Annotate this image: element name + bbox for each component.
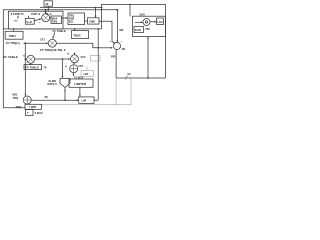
svg-text:FF TRQ(s): FF TRQ(s)	[6, 41, 20, 45]
node Y2 at 101.5	[101, 7, 103, 9]
box TBD2	[72, 31, 89, 39]
wire faint bottom return	[42, 78, 132, 104]
svg-text:TRQ: TRQ	[52, 20, 57, 23]
svg-text:TBD2: TBD2	[74, 33, 82, 37]
wire bus down to summer 40 left input and LIM feedback	[97, 29, 99, 100]
svg-text:⁄50: ⁄50	[44, 95, 49, 99]
wire top bus Y2	[40, 7, 102, 9]
wire faint PID down	[115, 78, 117, 105]
svg-text:S+D: S+D	[26, 20, 32, 24]
summer 40	[113, 42, 120, 49]
plant enclosure 100	[133, 16, 166, 36]
node plant drop	[129, 4, 131, 6]
box LAG	[157, 18, 164, 25]
svg-text:CF1: CF1	[40, 37, 45, 41]
wire into motor from left	[135, 21, 142, 23]
svg-text:ECM: ECM	[135, 28, 141, 32]
wire C3 output down	[72, 73, 74, 76]
svg-text:TRQ: TRQ	[16, 105, 22, 109]
box CMD	[88, 18, 100, 24]
wire feedback L-path to plant	[102, 5, 166, 79]
wire box42 drop	[47, 6, 49, 10]
node Y1 right end	[117, 9, 119, 11]
svg-text:FF TABLE: FF TABLE	[4, 55, 18, 59]
wire B2 to CMD	[85, 20, 88, 22]
svg-text:⁄160: ⁄160	[139, 12, 146, 16]
svg-text:TRQ: TRQ	[13, 96, 18, 100]
summer C3	[70, 65, 78, 73]
node Y2 at 95.5	[95, 7, 97, 9]
wire branch down to pentagon	[62, 59, 64, 78]
slash break mark	[125, 76, 128, 80]
wire Ba stub	[86, 67, 88, 71]
svg-text:42: 42	[45, 2, 49, 6]
wire CMD output	[99, 20, 108, 22]
summer 50	[23, 96, 31, 104]
svg-text:CXP Δ: CXP Δ	[31, 12, 41, 16]
svg-text:FF TORQUE TBL 2: FF TORQUE TBL 2	[40, 48, 66, 52]
box FF TABLE 76	[24, 65, 42, 70]
svg-text:PID: PID	[111, 54, 115, 58]
wire M1 to B2	[62, 17, 68, 19]
wire vertical v2 into summer 40	[116, 10, 118, 42]
box M1 max trq	[51, 16, 62, 23]
motor circle 160	[143, 19, 150, 26]
svg-text:FF TABLE: FF TABLE	[25, 66, 39, 70]
wire into C1 from left	[24, 42, 48, 44]
wire top bus Y1	[8, 9, 117, 11]
wire into TBD2	[74, 29, 76, 31]
pentagon slew limiter	[60, 79, 70, 88]
wire drop into summer S1	[45, 10, 47, 13]
box ECM	[134, 27, 144, 33]
summer S1	[42, 14, 50, 22]
wire summer 50 to LIM box	[31, 99, 78, 101]
node feedback junction	[147, 77, 149, 79]
multiplier C1	[48, 39, 56, 47]
svg-text:RATE X: RATE X	[48, 82, 58, 86]
wire into CMD from Y2	[95, 8, 97, 18]
svg-text:LIM: LIM	[84, 73, 88, 76]
wire tick below header	[17, 16, 19, 19]
wire vertical Y2 to bus	[101, 8, 103, 29]
wire summer 50 down	[26, 103, 28, 105]
svg-text:CF2: CF2	[81, 55, 86, 59]
limiter block	[25, 104, 42, 109]
wire S-D to S1	[34, 19, 41, 21]
node C1 input branch	[24, 42, 26, 44]
svg-text:LIMITER: LIMITER	[74, 82, 87, 86]
frame left and bottom border	[3, 10, 25, 108]
wire long drop to summer 50	[24, 43, 26, 95]
svg-text:CMD: CMD	[89, 20, 95, 24]
small box T MAX	[26, 110, 34, 116]
node box42 drop	[48, 9, 50, 11]
svg-text:⁄162: ⁄162	[144, 27, 150, 31]
svg-text:TQ MAX: TQ MAX	[74, 76, 84, 79]
svg-text:SEL: SEL	[69, 21, 74, 24]
svg-text:LIM: LIM	[82, 99, 86, 103]
wire C1 output to summer 40 left	[56, 43, 98, 48]
wire motor to LAG	[150, 21, 156, 23]
wire pentagon bottom down	[64, 88, 66, 101]
svg-text:LIMIT: LIMIT	[29, 105, 36, 109]
wire C2 to C3	[73, 63, 75, 64]
svg-text:+(: +(	[65, 65, 67, 68]
box faint 164	[91, 56, 101, 62]
wire tick into S-D top	[28, 16, 30, 18]
box S-D	[25, 18, 34, 24]
wire up into plant	[147, 37, 149, 79]
wire FT to D1	[30, 63, 32, 64]
svg-text:FF TABLE: FF TABLE	[53, 29, 66, 33]
wire into C1 from top	[53, 32, 55, 38]
svg-text:TL A: TL A	[46, 12, 52, 16]
box Ba faint	[81, 71, 94, 77]
svg-text:T MAX: T MAX	[35, 111, 43, 115]
node pentagon feedback joins wire	[64, 99, 66, 101]
multiplier D1	[27, 55, 35, 63]
wire Bb down to LIM	[79, 87, 81, 96]
box 42 top reference input	[44, 1, 53, 6]
svg-text:θ FWD TL: θ FWD TL	[11, 12, 25, 16]
box LIM 54	[79, 97, 94, 104]
tiny text labels	[4, 2, 163, 115]
wire long bus under box1	[3, 28, 101, 30]
wire left input into summer 40	[98, 47, 112, 49]
node pentagon branch	[62, 58, 64, 60]
svg-text:⁄40: ⁄40	[121, 47, 126, 51]
svg-text:ME: ME	[120, 28, 124, 32]
node bus at 98.2	[97, 28, 99, 30]
box Bb limit	[69, 79, 93, 87]
box 1 controller outline	[8, 11, 63, 29]
svg-text:+(: +(	[23, 54, 26, 58]
wire S1 to M1	[50, 17, 51, 19]
svg-text:+(: +(	[67, 52, 70, 56]
svg-text:+(−: +(−	[14, 18, 19, 22]
node branch to D1	[24, 58, 26, 60]
wire D1 output to C2	[35, 58, 70, 60]
wire vertical v1 into summer 40	[108, 21, 115, 43]
wire summer 40 output	[115, 50, 117, 78]
multiplier C2	[71, 55, 79, 63]
box TBD1	[5, 31, 23, 39]
svg-text:CF3: CF3	[78, 64, 83, 68]
wire into TBD1	[13, 29, 15, 31]
box B2 arbitration	[68, 13, 85, 25]
node Y1 at S1 drop	[45, 9, 47, 11]
wire stub into C2 top	[74, 53, 76, 55]
svg-text:TBD1: TBD1	[9, 34, 17, 38]
svg-text:LAG: LAG	[157, 20, 162, 24]
wire PID bus to right	[116, 77, 165, 79]
wire drop into plant corner	[129, 5, 131, 17]
